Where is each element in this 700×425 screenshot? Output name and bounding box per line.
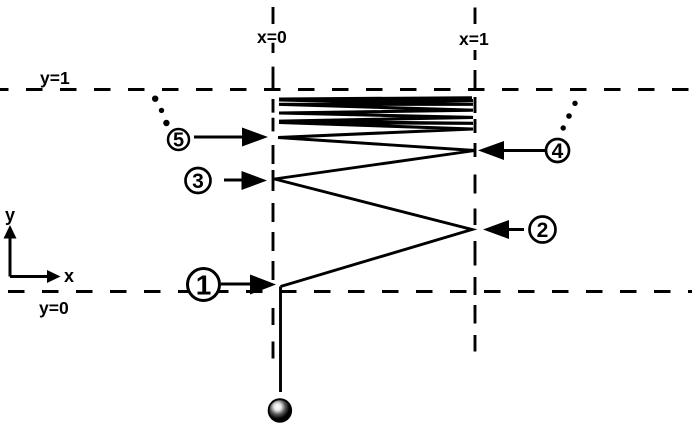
svg-text:1: 1 xyxy=(196,270,212,301)
trajectory main bounces polyline xyxy=(275,138,476,287)
arrow 3 xyxy=(224,171,267,190)
svg-text:4: 4 xyxy=(552,140,564,163)
circled number 3 xyxy=(186,168,211,193)
svg-text:y: y xyxy=(5,205,15,225)
svg-text:3: 3 xyxy=(192,170,204,193)
svg-text:y=1: y=1 xyxy=(40,68,70,88)
dashed horizontal line y=0 xyxy=(8,290,692,293)
svg-text:x=0: x=0 xyxy=(257,27,287,47)
svg-text:2: 2 xyxy=(537,219,549,242)
x axis arrow xyxy=(10,270,61,283)
arrow 2 xyxy=(483,220,524,239)
arrow 1 xyxy=(221,275,276,295)
y axis arrow xyxy=(4,225,17,277)
arrow 4 xyxy=(478,141,545,160)
dashed vertical line x=1 xyxy=(474,8,477,352)
dashed vertical line x=0 xyxy=(272,7,275,359)
ball xyxy=(269,399,292,422)
circled number 4 xyxy=(546,139,569,163)
svg-text:x=1: x=1 xyxy=(459,29,489,49)
trajectory converging cluster polyline xyxy=(278,98,473,138)
dotted arc left (three dots near 5) xyxy=(152,96,170,127)
svg-text:5: 5 xyxy=(173,130,184,152)
arrow 5 xyxy=(194,128,268,147)
dotted arc right (three dots near 4) xyxy=(561,101,578,131)
dashed horizontal line y=1 xyxy=(0,88,700,91)
svg-text:y=0: y=0 xyxy=(39,298,69,318)
trajectory vertical segment from ball xyxy=(279,287,282,393)
circled number 1 xyxy=(188,269,220,301)
circled number 2 xyxy=(530,217,556,243)
svg-text:x: x xyxy=(64,266,74,286)
circled number 5 xyxy=(168,129,189,152)
